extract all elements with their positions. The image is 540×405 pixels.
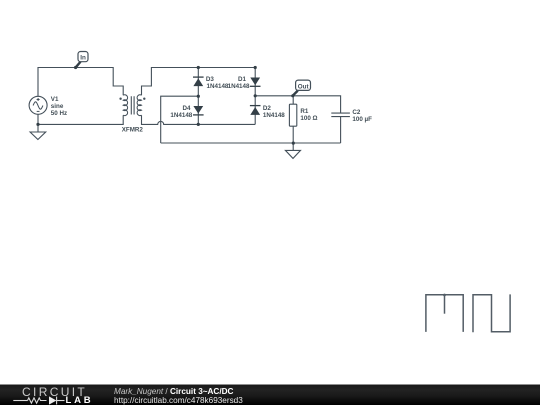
svg-text:100 Ω: 100 Ω [300,115,317,122]
svg-text:50 Hz: 50 Hz [51,110,67,117]
svg-text:XFMR2: XFMR2 [122,126,144,133]
svg-text:100 µF: 100 µF [352,116,372,123]
svg-text:1N4148: 1N4148 [170,112,192,119]
svg-text:Out: Out [298,83,310,90]
svg-text:1N4148: 1N4148 [228,83,250,90]
svg-text:1N4148: 1N4148 [207,83,229,90]
svg-text:1N4148: 1N4148 [263,112,285,119]
svg-text:In: In [80,55,86,62]
